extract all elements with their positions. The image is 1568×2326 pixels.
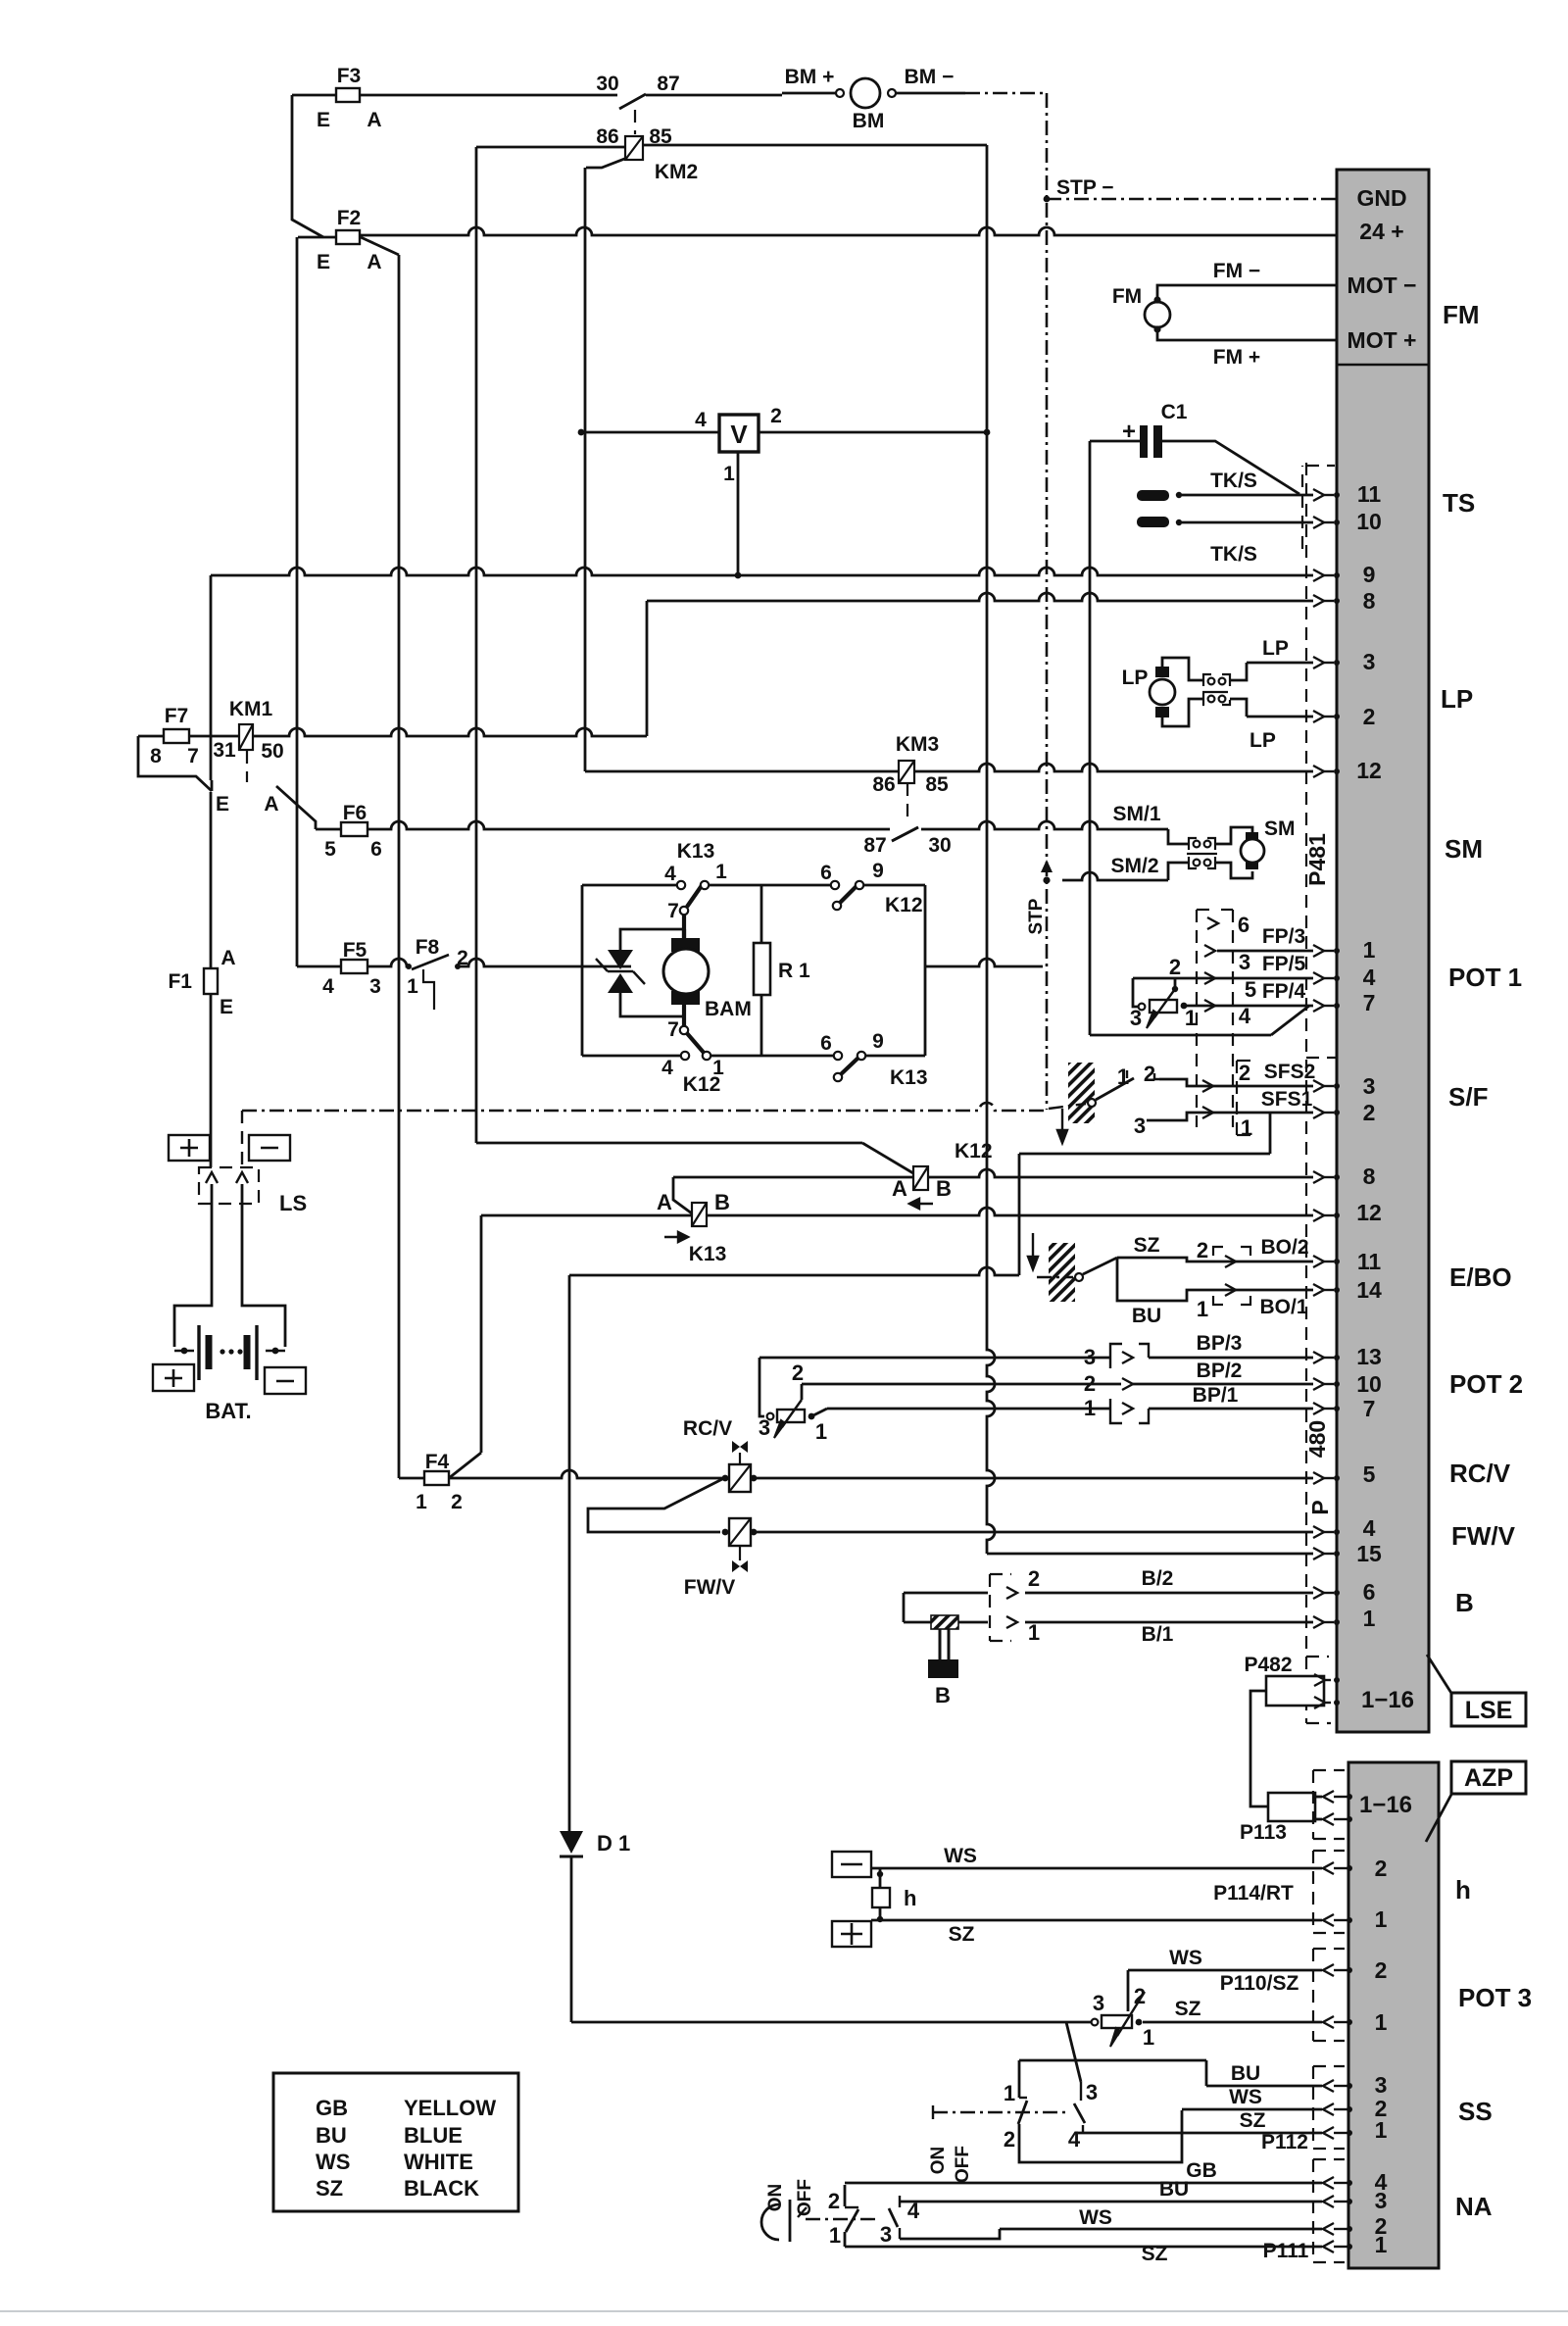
svg-text:3: 3	[1134, 1114, 1146, 1138]
svg-text:F7: F7	[165, 705, 189, 727]
wire SFS1 return loop	[1269, 1113, 1272, 1154]
svg-text:7: 7	[187, 745, 199, 767]
plus box bottom	[153, 1364, 194, 1391]
breaker F8	[406, 964, 412, 969]
wire pin8 lower line	[673, 1176, 913, 1179]
svg-text:1: 1	[1375, 1906, 1388, 1932]
svg-text:TS: TS	[1443, 488, 1475, 518]
wire KM2-86 bus down to KM3	[584, 168, 587, 771]
svg-text:K13: K13	[890, 1066, 928, 1089]
svg-text:BM +: BM +	[785, 66, 835, 88]
dashed bracket SFS	[1236, 1061, 1238, 1135]
svg-text:3: 3	[880, 2222, 892, 2247]
svg-text:F1: F1	[168, 970, 192, 993]
svg-text:1: 1	[416, 1491, 427, 1513]
plus box	[169, 1135, 210, 1161]
svg-text:8: 8	[1363, 588, 1376, 614]
svg-text:2: 2	[1197, 1238, 1208, 1262]
svg-text:2: 2	[1375, 1957, 1388, 1983]
hatched support E/BO	[1049, 1243, 1075, 1302]
svg-text:4: 4	[1363, 965, 1376, 990]
svg-text:B: B	[935, 1683, 951, 1707]
svg-text:POT 3: POT 3	[1458, 1983, 1532, 2012]
wire A to F6	[276, 786, 316, 829]
switch SS	[1019, 2059, 1206, 2062]
svg-text:11: 11	[1357, 1249, 1382, 1274]
connector LS	[199, 1167, 259, 1204]
wire SFS2 to pin3	[1215, 1085, 1313, 1088]
svg-text:87: 87	[657, 73, 679, 95]
svg-text:P111: P111	[1263, 2240, 1309, 2262]
svg-text:FW/V: FW/V	[684, 1576, 736, 1599]
svg-text:2: 2	[1239, 1061, 1250, 1085]
wire pin8 line from KM1-50 riser	[647, 593, 1313, 601]
svg-text:BP/1: BP/1	[1193, 1384, 1239, 1407]
relay coil KM2	[476, 146, 625, 149]
svg-text:B: B	[936, 1176, 952, 1201]
svg-text:14: 14	[1356, 1277, 1382, 1303]
svg-text:1: 1	[1028, 1620, 1040, 1645]
svg-text:4: 4	[695, 409, 707, 431]
svg-text:5: 5	[324, 838, 336, 861]
wire K13 line down to F4	[480, 1215, 483, 1453]
svg-text:3: 3	[1363, 1073, 1376, 1099]
svg-text:SFS1: SFS1	[1261, 1088, 1313, 1111]
capacitor C1	[1140, 425, 1148, 458]
wire FP/4	[1184, 1005, 1313, 1008]
svg-text:A: A	[264, 793, 278, 816]
sensor B	[904, 1592, 988, 1595]
svg-text:OFF: OFF	[795, 2179, 815, 2216]
svg-text:7: 7	[667, 1018, 679, 1041]
svg-text:30: 30	[928, 834, 951, 857]
svg-text:BU: BU	[1231, 2062, 1260, 2085]
bus E down to F1/battery	[210, 575, 213, 780]
svg-text:P112: P112	[1261, 2131, 1308, 2153]
potentiometer FP	[1133, 978, 1138, 1007]
svg-text:AZP: AZP	[1464, 1764, 1513, 1792]
wire SFS1 to pin2	[1215, 1112, 1313, 1114]
svg-text:4: 4	[1363, 1515, 1376, 1541]
wire K12 line	[476, 1142, 862, 1145]
svg-text:P114/RT: P114/RT	[1213, 1882, 1294, 1905]
svg-text:E: E	[216, 793, 229, 816]
svg-text:WS: WS	[1229, 2086, 1262, 2108]
wire LP pin3	[1247, 662, 1313, 665]
svg-text:F4: F4	[425, 1451, 450, 1473]
svg-text:SFS2: SFS2	[1264, 1061, 1316, 1083]
svg-text:1: 1	[1084, 1396, 1096, 1420]
svg-text:ON: ON	[928, 2147, 949, 2175]
svg-text:K12: K12	[955, 1140, 993, 1163]
connector pair SM	[1189, 838, 1197, 850]
svg-text:3: 3	[1130, 1006, 1142, 1030]
wire STP- dash-dot line	[242, 1103, 1047, 1111]
svg-text:1: 1	[1375, 2232, 1388, 2257]
svg-text:2: 2	[1004, 2127, 1015, 2152]
wire C1 bus down	[1089, 441, 1092, 1035]
svg-text:2: 2	[1134, 1984, 1146, 2008]
svg-text:SZ: SZ	[316, 2176, 343, 2201]
svg-text:BAT.: BAT.	[205, 1399, 251, 1423]
wire BP/3	[759, 1357, 1110, 1360]
svg-text:B/1: B/1	[1142, 1623, 1174, 1646]
svg-text:WHITE: WHITE	[404, 2150, 473, 2174]
svg-text:1: 1	[1004, 2081, 1015, 2105]
svg-text:2: 2	[1084, 1371, 1096, 1396]
sensor TK/S 2	[1137, 517, 1169, 527]
svg-text:7: 7	[1363, 1396, 1376, 1421]
svg-text:GB: GB	[1186, 2159, 1217, 2182]
svg-text:S/F: S/F	[1448, 1082, 1488, 1112]
svg-text:F8: F8	[416, 936, 440, 959]
svg-text:BM: BM	[853, 110, 885, 132]
svg-text:SS: SS	[1458, 2097, 1493, 2126]
svg-text:3: 3	[759, 1415, 770, 1440]
svg-text:FP/3: FP/3	[1262, 925, 1305, 948]
svg-text:V: V	[730, 420, 748, 449]
svg-text:10: 10	[1356, 509, 1382, 534]
svg-text:FP/4: FP/4	[1262, 980, 1306, 1003]
svg-text:5: 5	[1363, 1461, 1376, 1487]
svg-text:4: 4	[1239, 1004, 1251, 1028]
svg-text:TK/S: TK/S	[1210, 470, 1257, 492]
svg-text:h: h	[904, 1886, 916, 1910]
svg-text:2: 2	[1363, 704, 1376, 729]
svg-text:3: 3	[1375, 2188, 1388, 2213]
svg-text:KM3: KM3	[896, 733, 939, 756]
meter V	[719, 415, 759, 452]
svg-text:A: A	[220, 947, 235, 969]
svg-text:2: 2	[1028, 1566, 1040, 1591]
svg-text:R 1: R 1	[778, 960, 810, 982]
fuse F3	[292, 94, 617, 97]
svg-text:3: 3	[1375, 2072, 1388, 2098]
svg-text:7: 7	[667, 900, 679, 922]
svg-text:FW/V: FW/V	[1451, 1521, 1516, 1551]
svg-text:4: 4	[1068, 2127, 1081, 2152]
svg-text:BLACK: BLACK	[404, 2176, 479, 2201]
svg-text:SZ: SZ	[1142, 2243, 1168, 2265]
svg-text:P: P	[1307, 1500, 1333, 1514]
svg-text:3: 3	[1363, 649, 1376, 674]
svg-text:FM −: FM −	[1213, 260, 1260, 282]
wire branch to SS	[1066, 2022, 1081, 2082]
svg-text:6: 6	[370, 838, 382, 861]
relay contact KM3 87/30	[906, 783, 908, 823]
connector pair LP	[1203, 674, 1211, 686]
svg-text:F5: F5	[343, 939, 367, 962]
wire FP/5	[1133, 977, 1313, 980]
svg-text:6: 6	[820, 1032, 832, 1055]
svg-text:B/2: B/2	[1142, 1567, 1174, 1590]
svg-text:LP: LP	[1262, 637, 1289, 660]
svg-text:B: B	[1455, 1588, 1474, 1617]
svg-text:2: 2	[1363, 1100, 1376, 1125]
fuse F6	[316, 821, 890, 829]
svg-text:2: 2	[1169, 955, 1181, 979]
svg-text:8: 8	[1363, 1163, 1376, 1189]
bus KM2-85 down to pin15	[986, 145, 989, 1323]
wire big left bus	[569, 1267, 1019, 1275]
svg-text:OFF: OFF	[953, 2146, 973, 2183]
svg-text:6: 6	[1238, 913, 1249, 937]
svg-text:LP: LP	[1249, 729, 1276, 752]
svg-text:STP −: STP −	[1056, 176, 1114, 199]
svg-text:4: 4	[661, 1057, 673, 1079]
connector strip LSE (P480/P481)	[1337, 170, 1429, 1732]
svg-text:SM/2: SM/2	[1110, 855, 1158, 877]
dashed bracket FP	[1196, 910, 1198, 1127]
svg-text:4: 4	[664, 863, 676, 885]
svg-text:50: 50	[261, 740, 283, 763]
svg-text:85: 85	[649, 125, 672, 148]
switch NA	[844, 2185, 847, 2206]
svg-text:BU: BU	[316, 2123, 347, 2148]
fuse F1	[204, 968, 218, 994]
svg-text:GND: GND	[1356, 185, 1406, 211]
svg-text:WS: WS	[1169, 1947, 1202, 1969]
svg-text:31: 31	[213, 739, 236, 762]
motor BAM	[671, 938, 700, 952]
fuse F2	[292, 95, 323, 237]
relay coil K13	[692, 1203, 707, 1226]
svg-text:10: 10	[1356, 1371, 1382, 1397]
switch SZ/BU	[1083, 1258, 1117, 1274]
svg-text:FM: FM	[1443, 300, 1480, 329]
svg-text:2: 2	[1375, 1856, 1388, 1881]
svg-text:SM: SM	[1264, 817, 1296, 840]
svg-text:85: 85	[925, 773, 949, 796]
svg-text:F6: F6	[343, 802, 367, 824]
wire F7 loop to E	[138, 736, 212, 791]
svg-text:F3: F3	[337, 65, 362, 87]
svg-text:BAM: BAM	[705, 998, 752, 1020]
svg-text:24 +: 24 +	[1359, 219, 1403, 244]
svg-text:P481: P481	[1304, 833, 1330, 886]
svg-text:SZ: SZ	[949, 1923, 975, 1946]
svg-text:1: 1	[723, 463, 735, 485]
svg-text:86: 86	[872, 773, 895, 796]
svg-text:LP: LP	[1441, 684, 1473, 714]
fuse F4	[399, 1477, 424, 1480]
relay coil KM1	[239, 724, 253, 750]
wire BP/1	[827, 1408, 1110, 1410]
sensor TK/S 1	[1137, 490, 1169, 501]
jumper P113	[1268, 1793, 1315, 1821]
svg-text:3: 3	[1086, 2080, 1098, 2104]
svg-text:4: 4	[322, 975, 334, 998]
svg-text:BO/2: BO/2	[1260, 1236, 1308, 1259]
switch SFS arm	[1096, 1078, 1134, 1100]
svg-text:C1: C1	[1161, 401, 1188, 423]
svg-text:1: 1	[1375, 2117, 1388, 2143]
svg-text:SZ: SZ	[1134, 1234, 1160, 1257]
svg-text:FM +: FM +	[1213, 346, 1260, 369]
svg-text:2: 2	[792, 1361, 804, 1385]
wire FP/3	[1217, 950, 1313, 953]
svg-text:11: 11	[1357, 481, 1382, 507]
wire WS NA pin2	[900, 2229, 1000, 2239]
wire WS to h pin2	[871, 1867, 1322, 1870]
svg-text:3: 3	[1239, 950, 1250, 974]
svg-text:12: 12	[1356, 1200, 1382, 1225]
svg-text:1: 1	[1185, 1006, 1197, 1030]
svg-text:3: 3	[1093, 1991, 1104, 2015]
svg-text:15: 15	[1356, 1541, 1382, 1566]
svg-text:YELLOW: YELLOW	[404, 2096, 496, 2120]
battery BAT	[174, 1204, 212, 1347]
svg-text:TK/S: TK/S	[1210, 543, 1257, 566]
svg-text:SZ: SZ	[1175, 1998, 1201, 2020]
resistor R1	[754, 943, 770, 995]
wire KM1-50 line	[253, 728, 647, 736]
svg-text:LP: LP	[1122, 667, 1149, 689]
valve RC/V	[449, 1470, 722, 1478]
fuse F7	[138, 735, 164, 738]
wire SM/1	[921, 821, 1168, 829]
svg-text:1−16: 1−16	[1361, 1687, 1414, 1713]
jumper P482	[1266, 1676, 1324, 1706]
svg-text:1: 1	[1363, 937, 1376, 963]
svg-text:E: E	[317, 251, 330, 273]
svg-text:WS: WS	[944, 1845, 977, 1867]
wire LP pin2	[1247, 716, 1313, 718]
svg-text:1: 1	[1197, 1297, 1208, 1321]
wire 24+ line	[359, 227, 1337, 235]
wire BAM box to dash bus	[925, 959, 1043, 966]
svg-text:WS: WS	[316, 2150, 350, 2174]
wire F2-E bus down to F5	[296, 237, 299, 966]
svg-text:1−16: 1−16	[1359, 1792, 1412, 1818]
wire pin12 lower line	[481, 1214, 692, 1217]
svg-text:6: 6	[1363, 1579, 1376, 1605]
svg-text:87: 87	[863, 834, 886, 857]
svg-text:3: 3	[1084, 1345, 1096, 1369]
wire BU NA pin3	[900, 2201, 1322, 2203]
svg-text:P110/SZ: P110/SZ	[1220, 1972, 1299, 1995]
svg-text:BP/3: BP/3	[1197, 1332, 1243, 1355]
svg-text:F2: F2	[337, 207, 362, 229]
wire SZ to h pin1	[871, 1919, 1322, 1922]
svg-text:1: 1	[815, 1419, 827, 1444]
svg-text:RC/V: RC/V	[1449, 1459, 1511, 1488]
wire P482 to P113	[1250, 1691, 1268, 1806]
svg-text:LSE: LSE	[1465, 1697, 1513, 1724]
fuse F5	[297, 959, 409, 966]
svg-text:9: 9	[872, 1030, 884, 1053]
svg-text:E: E	[317, 109, 330, 131]
wire BU SS pin3	[1206, 2085, 1322, 2088]
STP- dash-dot bus	[1046, 93, 1049, 1110]
svg-text:2: 2	[451, 1491, 463, 1513]
svg-text:5: 5	[1245, 977, 1256, 1002]
svg-text:h: h	[1455, 1875, 1471, 1905]
svg-text:LS: LS	[279, 1191, 307, 1215]
svg-text:BLUE: BLUE	[404, 2123, 463, 2148]
transil diode pair	[610, 965, 631, 968]
wire WS POT3 pin2	[1128, 1969, 1322, 1972]
svg-text:3: 3	[369, 975, 381, 998]
svg-text:NA: NA	[1455, 2192, 1493, 2221]
svg-text:WS: WS	[1079, 2206, 1112, 2229]
svg-text:86: 86	[596, 125, 618, 148]
svg-text:A: A	[367, 109, 381, 131]
svg-text:12: 12	[1356, 758, 1382, 783]
wire SZ SS pin1	[1078, 2132, 1322, 2135]
svg-text:A: A	[367, 251, 381, 273]
svg-text:MOT +: MOT +	[1347, 327, 1417, 353]
potentiometer BP	[759, 1358, 764, 1416]
svg-text:B: B	[714, 1190, 730, 1214]
svg-text:KM1: KM1	[229, 698, 273, 720]
wire SZ POT3 pin1	[1143, 2021, 1322, 2024]
valve FW/V	[722, 1529, 729, 1536]
svg-text:FM: FM	[1112, 285, 1142, 308]
svg-text:1: 1	[1375, 2009, 1388, 2035]
relay coil K12	[913, 1166, 928, 1190]
svg-text:2: 2	[828, 2189, 840, 2213]
wire C1 to FP	[1090, 1034, 1271, 1037]
svg-text:A: A	[892, 1176, 907, 1201]
svg-text:K12: K12	[885, 894, 923, 916]
diode D1	[560, 1831, 583, 1854]
connector strip AZP	[1348, 1762, 1439, 2268]
wire to POT3	[571, 2021, 1091, 2024]
svg-text:P113: P113	[1240, 1821, 1287, 1844]
svg-text:30: 30	[596, 73, 618, 95]
hatched support SFS	[1068, 1063, 1095, 1123]
svg-text:P482: P482	[1244, 1654, 1292, 1676]
svg-text:BP/2: BP/2	[1197, 1360, 1243, 1382]
svg-text:ON: ON	[765, 2184, 786, 2212]
wire SM/2	[1062, 872, 1168, 880]
svg-text:1: 1	[1241, 1115, 1252, 1140]
minus box bottom	[265, 1367, 306, 1394]
dash-dot SS actuator	[933, 2111, 1066, 2113]
svg-text:BO/1: BO/1	[1259, 1296, 1307, 1318]
svg-text:KM2: KM2	[655, 161, 698, 183]
svg-text:BU: BU	[1132, 1305, 1161, 1327]
legend	[273, 2073, 518, 2211]
svg-text:2: 2	[770, 405, 782, 427]
svg-text:9: 9	[872, 860, 884, 882]
svg-text:9: 9	[1363, 562, 1376, 587]
minus box	[249, 1135, 290, 1161]
motor SM	[1215, 827, 1252, 844]
wire pin12 line	[585, 770, 899, 773]
svg-text:D 1: D 1	[597, 1831, 630, 1856]
svg-text:GB: GB	[316, 2096, 348, 2120]
svg-text:1: 1	[715, 861, 727, 883]
svg-text:A: A	[657, 1190, 672, 1214]
svg-text:SM/1: SM/1	[1112, 803, 1160, 825]
svg-text:RC/V: RC/V	[683, 1417, 732, 1440]
wire BO/2 to pin11	[1215, 1261, 1313, 1263]
svg-text:K12: K12	[683, 1073, 721, 1096]
svg-text:7: 7	[1363, 990, 1376, 1015]
svg-text:POT 1: POT 1	[1448, 963, 1522, 992]
lamp NA	[761, 2204, 779, 2240]
svg-text:SM: SM	[1445, 834, 1483, 864]
wire GB NA pin4	[845, 2182, 1322, 2185]
wire BP/2	[802, 1383, 1121, 1386]
wire RC/V to FW/V loop	[588, 1479, 722, 1532]
svg-text:STP: STP	[1026, 898, 1047, 934]
svg-text:1: 1	[407, 975, 418, 998]
enclosure box BAM	[582, 884, 677, 887]
svg-text:E: E	[220, 996, 233, 1018]
